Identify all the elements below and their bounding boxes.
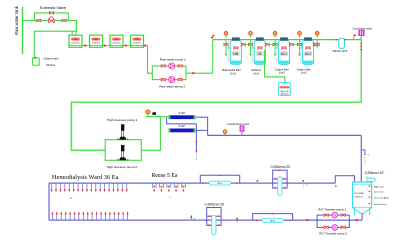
sample port s1 bbox=[236, 218, 238, 222]
pump RWP2 bbox=[169, 77, 175, 83]
gauge product bbox=[223, 130, 227, 136]
valve cartridge out bbox=[344, 39, 346, 41]
valve stack on downcomer bbox=[360, 43, 362, 45]
valve F02a b bbox=[284, 178, 286, 180]
outlet up 15 bbox=[113, 211, 115, 220]
wire tank outlet bbox=[361, 213, 363, 220]
valve V1 bbox=[37, 19, 41, 22]
sample point ward supply bbox=[190, 215, 195, 221]
wire ward supply pipe (bottom) bbox=[49, 219, 362, 221]
svg-text:NaCl salt: NaCl salt bbox=[280, 90, 289, 93]
valve P2 out bbox=[178, 78, 182, 81]
valve vessel DM bbox=[234, 47, 238, 50]
svg-text:500 litres: 500 litres bbox=[355, 195, 363, 198]
sample flag at header start bbox=[211, 35, 215, 39]
wire return jog to tank bbox=[335, 176, 354, 183]
polishing filter housing bbox=[367, 176, 375, 181]
wire filter header bbox=[213, 39, 362, 41]
tank RO bbox=[353, 182, 372, 215]
valve F02b c bbox=[209, 224, 211, 226]
svg-text:5,000 litres: 5,000 litres bbox=[71, 41, 79, 44]
wire vessel DM outlet bbox=[238, 44, 251, 46]
capsule F02b bbox=[212, 215, 216, 235]
outlet drop 11 bbox=[95, 183, 97, 192]
svg-text:0.2Micron 20: 0.2Micron 20 bbox=[271, 165, 291, 169]
label plate DM bbox=[232, 52, 239, 56]
wire riser to filter header bbox=[212, 40, 214, 74]
svg-text:SC: SC bbox=[258, 52, 263, 56]
wire membrane feed bbox=[146, 116, 170, 118]
valve TP1 out bbox=[341, 214, 345, 217]
valve t4 outlet bbox=[144, 45, 146, 47]
wire main line to solenoid manifold bbox=[23, 20, 77, 22]
valve vessel SC bbox=[258, 47, 262, 50]
solenoid valve SV bbox=[49, 17, 55, 23]
node riser 3 bottom bbox=[274, 54, 276, 56]
vessel AC1 body bbox=[278, 37, 289, 64]
filter assembly F02a bbox=[273, 170, 287, 188]
reuse outlet 3 bbox=[167, 183, 171, 192]
svg-text:100 litres: 100 litres bbox=[280, 93, 288, 96]
node riser 2 bottom bbox=[250, 54, 252, 56]
outlet drop 18 bbox=[126, 183, 128, 192]
level sensor High Level bbox=[369, 185, 385, 188]
level sensor Low Level Alarm bbox=[369, 196, 390, 199]
wire riser 3 bbox=[274, 40, 276, 55]
outlet up 4 bbox=[65, 211, 67, 220]
wire vessel AC2 inlet bbox=[300, 47, 309, 49]
svg-text:Raw water pump 1: Raw water pump 1 bbox=[160, 58, 186, 62]
valve P1 out bbox=[178, 65, 182, 68]
drain stub dashes bbox=[364, 157, 366, 163]
wire ward left riser bbox=[48, 183, 50, 220]
outlet up 14 bbox=[109, 211, 111, 220]
svg-text:AC1: AC1 bbox=[281, 52, 287, 56]
valve supply main bbox=[306, 219, 308, 221]
valve concentrate 2 bbox=[196, 150, 198, 152]
valve bypass MF1 bbox=[219, 174, 221, 176]
valve t1-t2 bbox=[84, 45, 86, 47]
wire vessel AC1 inlet bbox=[275, 47, 284, 49]
wire vessel SC outlet bbox=[262, 44, 275, 46]
valve F02a c bbox=[275, 187, 277, 189]
wire HP discharge riser bbox=[141, 117, 160, 151]
wire riser 4 bbox=[299, 40, 301, 55]
gauge PG1 bbox=[224, 31, 228, 38]
valve F02a a bbox=[275, 178, 277, 180]
valve TP2 in bbox=[324, 226, 328, 229]
wire product line bbox=[208, 134, 362, 136]
svg-text:2/m3: 2/m3 bbox=[279, 71, 285, 75]
valve P1 in bbox=[161, 65, 165, 68]
svg-text:Low Level: Low Level bbox=[374, 192, 384, 194]
gauge PG5 bbox=[315, 31, 319, 38]
valve tank outlet bbox=[355, 219, 357, 221]
pump RWP1 bbox=[169, 63, 175, 69]
settling tank T3 bbox=[110, 35, 123, 47]
gauge PG4 bbox=[298, 31, 302, 38]
outlet drop 5 bbox=[68, 183, 70, 192]
svg-text:R/O Transfer pump 1: R/O Transfer pump 1 bbox=[318, 208, 346, 212]
gauge PG2 bbox=[249, 31, 253, 38]
svg-text:Raw water tank: Raw water tank bbox=[131, 44, 143, 47]
wire bypass MF2 bbox=[253, 214, 293, 221]
svg-text:High pressure pump 2: High pressure pump 2 bbox=[107, 165, 138, 169]
svg-text:4″x40″: 4″x40″ bbox=[178, 112, 185, 115]
outlet drop 10 bbox=[90, 183, 92, 192]
level sensor Low Pressure bbox=[369, 203, 388, 206]
outlet drop 15 bbox=[112, 183, 114, 192]
membrane M2 bbox=[169, 128, 196, 132]
drain dashed line AC2 bbox=[300, 41, 302, 65]
valve vessel DM out bbox=[241, 43, 245, 46]
valve TP2 out bbox=[341, 226, 345, 229]
outlet drop 4 bbox=[64, 183, 66, 192]
gauge PG3 bbox=[273, 31, 277, 38]
svg-text:5,000 litres: 5,000 litres bbox=[112, 41, 120, 44]
wire vessel SC inlet bbox=[251, 47, 260, 49]
wire concentrate drain bbox=[195, 124, 197, 153]
valve vessel AC1 out bbox=[289, 43, 293, 46]
svg-text:High pressure pump 1: High pressure pump 1 bbox=[107, 118, 138, 122]
valve drain stub bbox=[364, 153, 366, 155]
svg-text:100 litres: 100 litres bbox=[46, 64, 56, 67]
pump TP1 bbox=[332, 212, 338, 218]
raw water tank supply line bbox=[22, 7, 24, 54]
valve bypass bbox=[49, 12, 53, 15]
wire transfer pump loop bbox=[317, 215, 349, 227]
valve riser 5 bbox=[315, 43, 319, 46]
wire permeate interconnect bbox=[167, 117, 197, 123]
outlet up 9 bbox=[87, 211, 89, 220]
wire HP pump loop bbox=[105, 140, 141, 161]
outlet drop 2 bbox=[55, 183, 57, 192]
wire drain stub bbox=[361, 150, 365, 153]
svg-text:Raw water tank: Raw water tank bbox=[70, 44, 82, 47]
outlet up 1 bbox=[51, 211, 53, 220]
outlet up 16 bbox=[118, 211, 120, 220]
outlet up 3 bbox=[60, 211, 62, 220]
settling tank T1 bbox=[69, 35, 82, 47]
settling tank T2 bbox=[90, 35, 103, 47]
cartridge housing MF2 bbox=[262, 219, 283, 223]
vessel SC body bbox=[254, 37, 265, 64]
valve bypass MF2 bbox=[272, 213, 274, 215]
valve MF1 out bbox=[236, 182, 238, 184]
outlet drop 14 bbox=[108, 183, 110, 192]
outlet up 5 bbox=[69, 211, 71, 220]
svg-text:MF 20: MF 20 bbox=[218, 183, 223, 185]
outlet up 10 bbox=[91, 211, 93, 220]
outlet up 11 bbox=[96, 211, 98, 220]
sample port r2 bbox=[302, 180, 307, 189]
outlet up 8 bbox=[82, 211, 84, 220]
wire riser 1 bbox=[225, 40, 227, 55]
wire bypass MF1 bbox=[200, 175, 239, 183]
node riser 4 bottom bbox=[299, 54, 301, 56]
valve MF1 in bbox=[202, 182, 204, 184]
outlet drop 12 bbox=[99, 183, 101, 192]
svg-text:0.2Micron 20: 0.2Micron 20 bbox=[205, 203, 225, 207]
wire vessel AC2 outlet bbox=[310, 44, 317, 46]
vessel AC2 body bbox=[302, 37, 313, 64]
svg-text:Conductivity meter: Conductivity meter bbox=[227, 122, 249, 126]
valve vessel AC2 out bbox=[313, 43, 317, 46]
drain dashed line AC1 bbox=[276, 41, 278, 65]
svg-text:Raw water pump 2: Raw water pump 2 bbox=[159, 85, 185, 89]
valve F02a d bbox=[284, 187, 286, 189]
node riser 1 bottom bbox=[225, 54, 227, 56]
valve concentrate 1 bbox=[196, 141, 198, 143]
svg-text:Low Pressure: Low Pressure bbox=[374, 203, 388, 206]
wire pump discharge bbox=[186, 72, 213, 74]
outlet up 18 bbox=[127, 211, 129, 220]
NaCl salt tank bbox=[279, 83, 291, 96]
cartridge housing MF1 bbox=[209, 181, 230, 185]
settling tank T4 bbox=[131, 35, 144, 47]
svg-text:2/m3: 2/m3 bbox=[253, 72, 259, 76]
outlet drop 1 bbox=[51, 183, 53, 192]
svg-text:R/O TANK: R/O TANK bbox=[354, 192, 364, 195]
wire RO feed cross line bbox=[71, 102, 361, 150]
wire brine line bbox=[265, 50, 285, 83]
svg-text:MF 20: MF 20 bbox=[270, 220, 275, 222]
sample flag 2 bbox=[354, 34, 357, 40]
outlet drop 17 bbox=[121, 183, 123, 192]
reuse outlet 5 bbox=[182, 183, 186, 192]
valve riser 2 bbox=[248, 43, 252, 46]
svg-text:AC2: AC2 bbox=[305, 52, 311, 56]
svg-text:Raw water tank: Raw water tank bbox=[90, 44, 102, 47]
svg-text:5Micron 40″6: 5Micron 40″6 bbox=[333, 50, 348, 53]
wire riser 5 bbox=[316, 40, 318, 48]
valve F02b top bbox=[213, 207, 215, 209]
valve P2 in bbox=[161, 78, 165, 81]
wire M2 outlet bbox=[195, 129, 207, 131]
valve t2-t3 bbox=[104, 45, 106, 47]
outlet up 7 bbox=[78, 211, 80, 220]
svg-text:Reuse 5 Ea: Reuse 5 Ea bbox=[151, 173, 178, 179]
valve t3-t4 bbox=[125, 45, 127, 47]
valve MF2 out bbox=[289, 220, 291, 222]
wire tank interconnects bbox=[82, 45, 148, 47]
valve F02b b bbox=[218, 215, 220, 217]
svg-text:Low Level Alarm: Low Level Alarm bbox=[374, 196, 390, 199]
svg-text:High Level: High Level bbox=[374, 186, 384, 188]
svg-text:4″x40″: 4″x40″ bbox=[178, 125, 185, 128]
svg-text:Raw water tank: Raw water tank bbox=[14, 5, 19, 35]
valve vessel SC out bbox=[265, 43, 269, 46]
valve vessel AC2 bbox=[306, 47, 310, 50]
svg-text:2/m3: 2/m3 bbox=[230, 72, 236, 76]
capsule F02a bbox=[278, 177, 282, 196]
gauge membrane feed bbox=[146, 110, 150, 117]
drain dashes bbox=[195, 154, 197, 160]
level sensor Low Level bbox=[369, 191, 384, 194]
outlet drop 7 bbox=[77, 183, 79, 192]
outlet drop 8 bbox=[82, 183, 84, 192]
svg-text:5,000 litres: 5,000 litres bbox=[133, 41, 141, 44]
pump HPP1 bbox=[117, 124, 129, 140]
outlet drop 13 bbox=[104, 183, 106, 192]
conductivity meter CM1 bbox=[359, 30, 364, 36]
svg-text:Hemodialysis Ward 36 Ea: Hemodialysis Ward 36 Ea bbox=[52, 174, 119, 181]
outlet up 13 bbox=[104, 211, 106, 220]
wire raw water pump loop bbox=[152, 66, 186, 80]
valve F02b d bbox=[218, 224, 220, 226]
wire down from CM1 bbox=[360, 36, 362, 103]
membrane M1 bbox=[169, 115, 196, 119]
valve return corner bbox=[335, 185, 337, 187]
wire tank1 inlet stubs bbox=[71, 31, 73, 35]
reuse outlet 1 bbox=[152, 183, 156, 192]
flow switch (black box) bbox=[152, 112, 156, 115]
drain dashed line DM bbox=[227, 41, 229, 65]
wire bypass loop bbox=[35, 13, 69, 21]
wire vessel AC1 outlet bbox=[286, 44, 300, 46]
outlet up 17 bbox=[122, 211, 124, 220]
valve F02a top bbox=[279, 169, 281, 171]
wire M1 to M2 routing bbox=[195, 117, 207, 135]
wire tank outlet down bbox=[148, 46, 153, 74]
filter assembly F02b bbox=[207, 208, 221, 226]
drain dashed line SC bbox=[251, 41, 253, 65]
label plate AC1 bbox=[280, 52, 287, 56]
valve riser 4 bbox=[297, 43, 301, 46]
wire ward return pipe (top) bbox=[49, 182, 335, 184]
svg-text:0.2Micron 10″: 0.2Micron 10″ bbox=[365, 171, 385, 175]
svg-text:Raw water tank: Raw water tank bbox=[111, 44, 123, 47]
valve tank inlet bbox=[354, 177, 356, 179]
valve riser 1 bbox=[224, 43, 228, 46]
svg-text:Solenoid Valve: Solenoid Valve bbox=[40, 5, 67, 10]
valve V2 bbox=[62, 19, 66, 22]
conductivity meter CM2 bbox=[240, 126, 244, 136]
outlet drop 3 bbox=[59, 183, 61, 192]
vessel DM body bbox=[230, 37, 241, 64]
valve MF2 in bbox=[256, 220, 258, 222]
wire product downcomer bbox=[360, 135, 362, 181]
outlet drop 16 bbox=[117, 183, 119, 192]
valve vessel AC1 bbox=[282, 47, 286, 50]
pump HPP2 bbox=[117, 145, 129, 161]
svg-text:5,000 litres: 5,000 litres bbox=[92, 41, 100, 44]
valve TP1 in bbox=[324, 214, 328, 217]
outlet drop 9 bbox=[86, 183, 88, 192]
valve cartridge in bbox=[335, 39, 337, 41]
svg-text:Chlorine tank: Chlorine tank bbox=[44, 58, 59, 61]
sample port r1 bbox=[257, 180, 259, 184]
label plate AC2 bbox=[304, 52, 311, 56]
outlet up 2 bbox=[56, 211, 58, 220]
chlorine tank bbox=[33, 57, 40, 66]
reuse outlet 4 bbox=[174, 183, 178, 192]
cartridge filter housing bbox=[339, 38, 345, 48]
valve pump discharge bbox=[192, 72, 194, 74]
outlet up 6 bbox=[74, 211, 76, 220]
outlet drop 6 bbox=[73, 183, 75, 192]
pump TP2 bbox=[332, 225, 338, 231]
svg-text:2/m3: 2/m3 bbox=[301, 71, 307, 75]
valve riser 3 bbox=[273, 43, 277, 46]
valve F02b a bbox=[209, 215, 211, 217]
outlet up 12 bbox=[100, 211, 102, 220]
wire vessel DM inlet bbox=[226, 47, 236, 49]
wire down to tank feed header bbox=[34, 21, 76, 57]
wire riser 2 bbox=[250, 40, 252, 55]
reuse outlet 2 bbox=[160, 183, 164, 192]
svg-text:DM: DM bbox=[233, 52, 238, 56]
label plate SC bbox=[256, 52, 263, 56]
svg-text:R/O Transfer pump 2: R/O Transfer pump 2 bbox=[319, 232, 347, 236]
